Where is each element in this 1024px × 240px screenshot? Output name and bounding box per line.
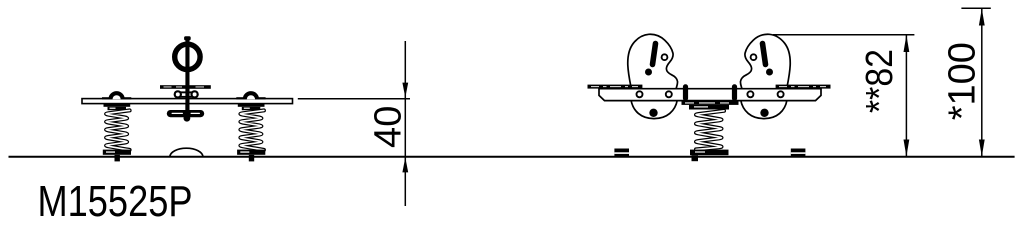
spring L1 bottom plate	[103, 150, 131, 155]
post lower section	[185, 104, 189, 118]
center spring anchor bolt	[692, 155, 699, 161]
dim 82 vertical line	[905, 35, 907, 157]
plank bolt hole 4	[778, 91, 784, 97]
dim 100 top arrow	[979, 9, 985, 26]
left seat hand hole	[662, 54, 668, 60]
spring L2 clamp plate on platform top	[236, 97, 265, 99]
center post	[185, 38, 189, 121]
post clamp right loop	[192, 91, 198, 97]
right seat mounting plate	[776, 85, 831, 89]
dim 82 top arrow	[904, 35, 910, 52]
spring L2 anchor bolt	[249, 155, 254, 162]
right seat panel (mirror)	[740, 34, 790, 118]
spring L1 anchor bolt	[115, 155, 120, 162]
handle ring	[175, 44, 200, 69]
ground anchor foot right	[791, 149, 806, 157]
spring L2 dome mount	[243, 91, 259, 99]
left seat bolt	[645, 69, 652, 76]
handlebar plate	[160, 85, 211, 89]
svg-text:M15525P: M15525P	[38, 177, 193, 225]
spring L2 top clamp bar	[238, 103, 265, 107]
svg-text:*100: *100	[942, 42, 984, 120]
center spring upper clamp	[689, 105, 729, 110]
center spring top clamp bar	[682, 101, 739, 105]
footrest capsule	[167, 110, 204, 117]
svg-text:**82: **82	[859, 49, 901, 113]
dim 40 bottom arrow	[402, 157, 408, 172]
spring L1 top clamp bar	[104, 103, 131, 107]
dim 100 extension tick	[961, 7, 990, 9]
footrest center bolt	[184, 115, 191, 122]
dim 40 extension line	[298, 98, 410, 100]
spring L1 dome mount	[108, 91, 124, 99]
left seat lower bowl	[631, 100, 677, 119]
post top cap	[184, 36, 191, 40]
dim 82 bottom arrow	[904, 140, 910, 157]
dim 100 bottom arrow	[979, 140, 985, 157]
ground anchor foot left	[614, 149, 629, 157]
dim 82 extension line	[773, 34, 914, 36]
center spring coils	[696, 111, 724, 150]
spring L2 coils	[240, 110, 264, 149]
dim 40 vertical line	[404, 41, 406, 206]
post clamp upper bar	[178, 91, 195, 93]
ground hump arc	[170, 148, 203, 157]
spring L1 clamp plate on platform top	[102, 97, 131, 99]
plank (side view)	[599, 89, 821, 101]
clamp bolt left	[683, 84, 688, 101]
post clamp left loop	[175, 91, 181, 97]
left seat panel	[628, 34, 678, 89]
clamp bolt right	[732, 84, 737, 101]
dim 100 vertical line	[981, 8, 983, 157]
post clamp lower bar	[178, 96, 195, 98]
plank bolt hole 2	[666, 91, 672, 97]
left seat lower bolt	[649, 109, 657, 117]
platform board	[82, 99, 293, 104]
center spring bottom plate	[690, 150, 729, 156]
ground line	[9, 156, 1015, 158]
dim 40 top arrow	[402, 83, 408, 98]
spring L1 coils	[106, 110, 130, 149]
plank bolt hole 3	[747, 91, 753, 97]
svg-text:40: 40	[368, 106, 410, 148]
plank bolt hole 1	[637, 91, 643, 97]
left seat handle	[653, 44, 656, 65]
spring L2 bottom plate	[237, 150, 265, 155]
left seat mounting plate	[588, 85, 643, 89]
